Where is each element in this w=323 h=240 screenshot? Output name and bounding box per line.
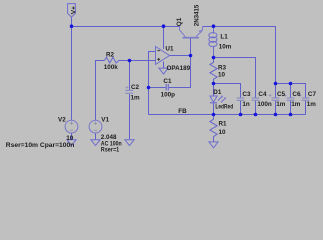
svg-text:R1: R1 <box>219 121 228 128</box>
svg-text:V1: V1 <box>101 117 109 124</box>
ground for op-amp U1 <box>159 68 168 74</box>
capacitor C4 <box>252 98 260 100</box>
capacitor C7 <box>302 98 310 100</box>
wire Q1 base <box>190 38 192 55</box>
svg-text:10m: 10m <box>219 43 232 50</box>
junction R2 / C2 / op-amp plus <box>128 59 132 63</box>
svg-text:C7: C7 <box>308 91 317 98</box>
svg-text:C3: C3 <box>242 91 251 98</box>
junction op-amp V+ <box>162 24 166 28</box>
wire C1 left <box>149 87 166 89</box>
junction C5 top <box>274 82 278 86</box>
svg-text:C4: C4 <box>258 91 267 98</box>
svg-text:10: 10 <box>218 72 226 79</box>
polarity plus C6 <box>284 94 287 97</box>
wire op-amp Vminus stub <box>163 62 165 69</box>
svg-text:C5: C5 <box>277 91 286 98</box>
svg-text:V2: V2 <box>58 117 66 124</box>
svg-text:C1: C1 <box>163 78 172 85</box>
wire Q1 emitter to C5 column <box>203 27 276 84</box>
capacitor C1 <box>166 84 168 90</box>
svg-text:C2: C2 <box>131 84 140 91</box>
svg-text:U1: U1 <box>165 45 174 52</box>
wire R2 to op-amp plus input <box>119 60 156 62</box>
svg-text:Q1: Q1 <box>176 17 183 26</box>
resistor R2 <box>104 57 118 63</box>
wire op-amp output <box>170 55 191 57</box>
wire V+ rail top <box>72 26 180 28</box>
svg-text:LedRed: LedRed <box>215 104 233 111</box>
svg-text:OPA189: OPA189 <box>167 65 191 72</box>
polarity plus C5 <box>269 94 272 97</box>
ground for V1 <box>91 140 100 146</box>
wire node A L1 bottom to C4 top <box>214 58 256 98</box>
svg-text:100n: 100n <box>257 101 272 108</box>
junction output / base <box>189 54 193 58</box>
junction FB / D1 / R1 <box>212 113 216 117</box>
svg-text:C6: C6 <box>292 91 301 98</box>
polarity plus C2 <box>126 86 129 89</box>
svg-text:R2: R2 <box>106 51 115 58</box>
wire FB bottom bus <box>149 114 306 116</box>
wire C3 bottom <box>240 101 242 115</box>
wire C2 top <box>129 61 131 90</box>
wire C4 bottom <box>255 101 257 115</box>
svg-text:D1: D1 <box>213 89 222 96</box>
capacitor C5 <box>272 98 280 100</box>
wire node B R3 bottom to C3 top <box>214 84 241 98</box>
transistor Q1 <box>180 27 203 38</box>
flag net V+ <box>68 4 76 17</box>
svg-text:FB: FB <box>178 108 187 115</box>
svg-text:1m: 1m <box>291 101 301 108</box>
svg-text:Rser=10m Cpar=100n: Rser=10m Cpar=100n <box>6 142 75 149</box>
svg-text:Rser=1: Rser=1 <box>101 146 120 153</box>
junction C5 bottom <box>274 113 278 117</box>
svg-text:1m: 1m <box>276 101 286 108</box>
junction C3 bottom <box>239 113 243 117</box>
ground for V2 <box>67 140 76 146</box>
wire upper bus to C7 <box>276 84 306 98</box>
junction C1 / minus input <box>147 86 151 90</box>
wire op-amp V+ stub <box>163 27 165 50</box>
wire op-amp minus input down to FB corner <box>149 52 156 115</box>
wire D1 anode stub <box>213 84 215 97</box>
svg-text:1m: 1m <box>307 101 317 108</box>
wire C6 top stub <box>290 84 292 98</box>
polarity plus C7 <box>299 94 302 97</box>
svg-text:1n: 1n <box>242 101 250 108</box>
capacitor C2 <box>125 90 133 93</box>
wire C1 right to output node <box>169 56 191 88</box>
svg-text:L1: L1 <box>220 34 228 41</box>
svg-text:1m: 1m <box>131 94 141 101</box>
wire V1 column to R2 <box>96 61 105 121</box>
junction C6 bottom <box>289 113 293 117</box>
wire V2 ground stub <box>71 133 73 140</box>
svg-text:100k: 100k <box>104 64 119 71</box>
ground for C2 <box>125 140 134 146</box>
wire C5 bottom <box>275 101 277 115</box>
diode D1 LED <box>210 96 226 103</box>
resistor R1 <box>210 115 217 142</box>
junction L1 / R3 / C4 <box>212 56 216 60</box>
voltage source V2 <box>65 120 78 133</box>
wire C7 bottom <box>305 101 307 115</box>
wire flag pole to V2 <box>71 17 73 121</box>
svg-text:10: 10 <box>66 135 74 142</box>
wire C5 top stub <box>275 84 277 98</box>
capacitor C6 <box>287 98 295 100</box>
junction R3 / D1 / C3 <box>212 82 216 86</box>
svg-text:100p: 100p <box>161 91 176 98</box>
ground for R1 <box>209 142 218 148</box>
wire C2 bottom <box>129 94 131 140</box>
capacitor C3 <box>237 98 245 100</box>
junction C4 bottom <box>254 113 258 117</box>
inductor L1 <box>209 27 217 58</box>
wire C6 bottom <box>290 101 292 115</box>
svg-text:10: 10 <box>219 129 227 136</box>
junction V+ rail / V2 <box>70 24 74 28</box>
junction Q1 emitter / L1 <box>212 24 216 28</box>
svg-text:2N3415: 2N3415 <box>194 4 201 26</box>
junction C6 top <box>289 82 293 86</box>
wire D1 cathode stub <box>213 104 215 115</box>
resistor R3 <box>210 58 217 84</box>
svg-text:V+: V+ <box>71 6 78 14</box>
voltage source V1 <box>89 120 102 133</box>
op-amp input polarity marks <box>157 51 160 61</box>
wire V1 ground stub <box>95 133 97 140</box>
op-amp U1 <box>156 47 170 65</box>
